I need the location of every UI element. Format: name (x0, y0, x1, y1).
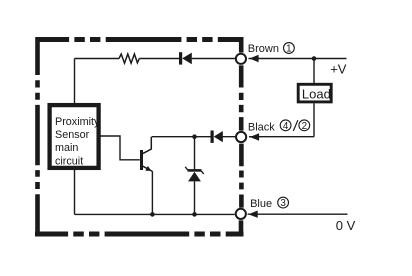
svg-text:circuit: circuit (55, 155, 83, 167)
svg-text:4: 4 (283, 121, 289, 132)
svg-text:2: 2 (302, 121, 307, 132)
svg-text:+V: +V (330, 62, 347, 77)
svg-text:Load: Load (302, 87, 331, 102)
svg-text:Proximity: Proximity (55, 116, 100, 128)
svg-text:Black: Black (248, 122, 275, 134)
svg-text:main: main (55, 142, 78, 154)
svg-text:Brown: Brown (248, 43, 279, 55)
svg-text:0 V: 0 V (336, 218, 356, 233)
svg-text:Sensor: Sensor (55, 129, 90, 141)
svg-text:Blue: Blue (250, 198, 272, 210)
svg-text:1: 1 (286, 44, 291, 55)
svg-text:3: 3 (280, 198, 286, 209)
